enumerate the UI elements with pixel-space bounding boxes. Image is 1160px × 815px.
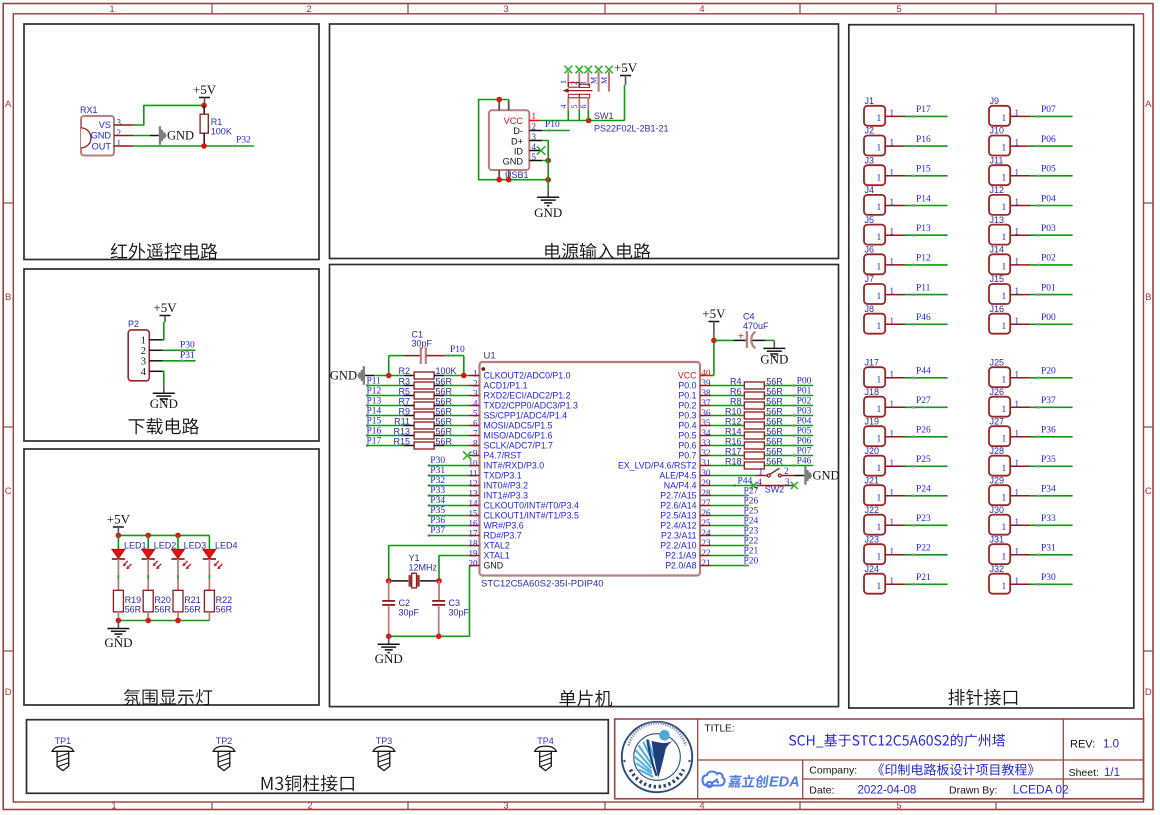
wire pin40 VCC: [711, 375, 714, 377]
pin header J24: [864, 574, 885, 594]
svg-text:R10: R10: [725, 407, 742, 417]
svg-text:1: 1: [1015, 316, 1020, 326]
svg-text:56R: 56R: [436, 427, 453, 437]
svg-text:P05: P05: [1041, 165, 1056, 175]
net label P07: [793, 454, 796, 457]
svg-text:GND: GND: [503, 156, 524, 166]
net label P16: [366, 434, 369, 437]
svg-text:P03: P03: [797, 406, 812, 416]
svg-text:A: A: [1145, 99, 1152, 110]
net label P03: [793, 414, 796, 417]
svg-text:1: 1: [1002, 464, 1007, 474]
pin header J8: [864, 314, 885, 334]
title 下载电路: [129, 418, 199, 435]
section box LED: [24, 449, 319, 705]
svg-text:P2.4/A12: P2.4/A12: [660, 521, 696, 531]
svg-text:1: 1: [877, 523, 882, 533]
wire D- / net P10: [542, 130, 570, 132]
svg-text:P2.5/A13: P2.5/A13: [660, 511, 696, 521]
net label P32: [233, 145, 236, 148]
svg-text:R12: R12: [725, 417, 742, 427]
svg-text:D: D: [1145, 687, 1152, 698]
svg-text:38: 38: [702, 388, 712, 398]
svg-text:P2.6/A14: P2.6/A14: [660, 501, 696, 511]
svg-text:5: 5: [570, 105, 579, 109]
svg-text:1: 1: [1015, 369, 1020, 379]
svg-text:1: 1: [559, 80, 568, 84]
resistor R19: [113, 590, 123, 612]
net label P30: [428, 464, 431, 467]
wire SW2 to GND: [781, 475, 794, 477]
svg-text:21: 21: [702, 558, 711, 568]
svg-text:LCEDA 02: LCEDA 02: [1013, 783, 1069, 797]
svg-text:C3: C3: [449, 598, 461, 608]
svg-text:GND: GND: [104, 635, 132, 650]
svg-text:P16: P16: [916, 135, 931, 145]
svg-text:1: 1: [890, 487, 895, 497]
svg-text:1: 1: [890, 286, 895, 296]
svg-text:P46: P46: [916, 313, 931, 323]
title 氛围显示灯: [124, 689, 212, 705]
node junctions top rail: [116, 533, 122, 539]
svg-text:P20: P20: [744, 556, 759, 566]
capacitor C4 470uF: [714, 339, 734, 341]
pin header J13: [989, 225, 1010, 245]
pin header J16: [989, 314, 1010, 334]
svg-text:C: C: [5, 486, 12, 497]
wire P17: [366, 445, 404, 447]
svg-text:1: 1: [1015, 197, 1020, 207]
svg-text:STC12C5A60S2-35I-PDIP40: STC12C5A60S2-35I-PDIP40: [481, 579, 604, 590]
svg-text:4: 4: [699, 800, 704, 811]
svg-text:VCC: VCC: [678, 371, 697, 381]
svg-text:1: 1: [1015, 167, 1020, 177]
pin header J21: [864, 485, 885, 505]
pin header J32: [989, 574, 1010, 594]
svg-text:9: 9: [473, 448, 478, 458]
svg-text:R13: R13: [393, 427, 410, 437]
connector P2: [128, 330, 149, 381]
svg-text:16: 16: [469, 518, 479, 528]
svg-text:P21: P21: [916, 573, 931, 583]
svg-text:OUT: OUT: [92, 141, 112, 151]
svg-text:P25: P25: [916, 455, 931, 465]
svg-text:J20: J20: [865, 446, 880, 456]
svg-text:56R: 56R: [436, 377, 453, 387]
node junction R1/OUT: [201, 143, 207, 149]
svg-text:1: 1: [1015, 227, 1020, 237]
svg-text:10: 10: [469, 458, 479, 468]
svg-text:1: 1: [877, 292, 882, 302]
svg-text:P07: P07: [797, 446, 812, 456]
svg-text:1: 1: [1015, 458, 1020, 468]
resistor R15: [404, 445, 414, 447]
svg-text:1: 1: [890, 517, 895, 527]
svg-text:6: 6: [473, 418, 478, 428]
no-connect X SW2 pin3: [791, 482, 798, 489]
svg-text:P31: P31: [180, 351, 195, 361]
svg-text:P0.4: P0.4: [678, 421, 696, 431]
section box download: [24, 269, 319, 441]
svg-text:56R: 56R: [436, 407, 453, 417]
svg-text:P02: P02: [797, 396, 812, 406]
svg-text:40: 40: [702, 368, 712, 378]
svg-text:P01: P01: [797, 386, 812, 396]
svg-text:P25: P25: [744, 506, 759, 516]
svg-text:J8: J8: [865, 304, 875, 314]
svg-text:1: 1: [890, 138, 895, 148]
svg-text:TP3: TP3: [376, 736, 393, 746]
svg-text:J11: J11: [990, 155, 1004, 165]
svg-text:P13: P13: [916, 224, 931, 234]
svg-text:5: 5: [896, 800, 901, 811]
svg-text:P17: P17: [916, 105, 931, 115]
svg-text:2: 2: [307, 800, 312, 811]
net label P05: [793, 434, 796, 437]
wire P34: [429, 505, 469, 507]
svg-text:GND: GND: [534, 205, 562, 220]
svg-text:P0.1: P0.1: [678, 391, 696, 401]
svg-text:27: 27: [702, 498, 712, 508]
svg-text:P35: P35: [430, 506, 445, 516]
svg-text:ID: ID: [514, 147, 524, 157]
svg-text:1: 1: [877, 144, 882, 154]
resistor R8: [744, 402, 764, 409]
svg-text:29: 29: [702, 478, 712, 488]
no-connect X marks SW1: [565, 66, 573, 74]
svg-text:TP2: TP2: [216, 736, 233, 746]
svg-text:P07: P07: [1041, 105, 1056, 115]
svg-text:P37: P37: [1041, 396, 1056, 406]
svg-text:3: 3: [473, 388, 478, 398]
svg-text:1: 1: [890, 458, 895, 468]
resistor R7: [404, 405, 414, 407]
svg-text:1: 1: [1002, 405, 1007, 415]
svg-text:1: 1: [117, 138, 122, 148]
wire P16: [366, 435, 404, 437]
wire pin24: [711, 535, 749, 537]
svg-text:1: 1: [890, 108, 895, 118]
svg-text:J12: J12: [990, 185, 1005, 195]
svg-text:470uF: 470uF: [743, 321, 769, 331]
USB connector USB1: [489, 110, 529, 170]
svg-text:30pF: 30pF: [399, 608, 420, 618]
svg-text:1: 1: [1002, 263, 1007, 273]
svg-text:P31: P31: [430, 466, 445, 476]
wire pin31: [711, 465, 745, 467]
svg-text:3: 3: [117, 117, 122, 127]
pin header J2: [864, 136, 885, 156]
svg-text:2: 2: [117, 128, 122, 138]
section box power input: [330, 24, 839, 259]
wire USB shield loop: [479, 100, 549, 180]
capacitor C2: [388, 581, 390, 601]
svg-text:1: 1: [1002, 375, 1007, 385]
svg-text:RXD2/ECI/ADC2/P1.2: RXD2/ECI/ADC2/P1.2: [484, 391, 571, 401]
svg-text:1: 1: [877, 582, 882, 592]
svg-text:P2.3/A11: P2.3/A11: [661, 531, 697, 541]
net label P12: [366, 394, 369, 397]
svg-text:33: 33: [702, 438, 712, 448]
net label P02: [793, 404, 796, 407]
svg-text:J30: J30: [990, 505, 1005, 515]
net label P22: [744, 544, 747, 547]
svg-text:56R: 56R: [766, 437, 783, 447]
net label P44: [733, 484, 736, 487]
svg-text:1: 1: [111, 800, 116, 811]
svg-text:ACD1/P1.1: ACD1/P1.1: [484, 381, 528, 391]
pin header J5: [864, 225, 885, 245]
svg-text:8: 8: [473, 438, 478, 448]
net label P46: [793, 464, 796, 467]
pin header J15: [989, 284, 1010, 304]
svg-text:GND: GND: [330, 369, 357, 383]
title M3铜柱接口: [262, 775, 354, 792]
svg-text:1: 1: [877, 114, 882, 124]
title block grid: [615, 719, 1144, 799]
svg-text:R17: R17: [725, 447, 742, 457]
node junction Y1 right: [436, 578, 442, 584]
svg-text:1: 1: [1002, 173, 1007, 183]
svg-text:M: M: [589, 77, 598, 84]
svg-text:P20: P20: [1041, 367, 1056, 377]
svg-text:1: 1: [1015, 108, 1020, 118]
svg-text:1: 1: [890, 399, 895, 409]
node junction C1/R2 left: [386, 373, 392, 379]
svg-text:R11: R11: [394, 417, 410, 427]
svg-text:1: 1: [890, 576, 895, 586]
svg-text:J27: J27: [990, 416, 1005, 426]
svg-text:TXD2/CPP0/ADC3/P1.3: TXD2/CPP0/ADC3/P1.3: [484, 401, 578, 411]
svg-text:J2: J2: [865, 126, 875, 136]
svg-text:36: 36: [702, 408, 712, 418]
svg-text:J21: J21: [865, 475, 880, 485]
svg-text:1: 1: [1015, 399, 1020, 409]
pin header J30: [989, 515, 1010, 535]
svg-text:XTAL2: XTAL2: [484, 541, 510, 551]
resistor R2: [404, 375, 414, 377]
svg-text:100K: 100K: [211, 127, 232, 137]
svg-text:19: 19: [469, 548, 479, 558]
svg-text:P30: P30: [430, 456, 445, 466]
svg-text:24: 24: [702, 528, 712, 538]
svg-text:P0.3: P0.3: [678, 411, 696, 421]
svg-text:R19: R19: [125, 595, 142, 605]
pin header J12: [989, 195, 1010, 215]
svg-text:11: 11: [469, 468, 478, 478]
svg-text:P37: P37: [430, 526, 445, 536]
svg-text:P14: P14: [916, 194, 931, 204]
net label P25: [744, 514, 747, 517]
net label P37: [428, 534, 431, 537]
net label P11: [366, 384, 369, 387]
net label P35: [428, 514, 431, 517]
svg-text:1: 1: [1015, 138, 1020, 148]
wire P2 pin1 to +5V: [163, 322, 164, 340]
pin header J10: [989, 136, 1010, 156]
pin header J26: [989, 397, 1010, 417]
wire P31: [429, 475, 469, 477]
svg-text:R15: R15: [393, 437, 410, 447]
svg-text:P04: P04: [1041, 194, 1056, 204]
svg-text:1: 1: [890, 256, 895, 266]
svg-text:LED4: LED4: [215, 541, 238, 551]
wire XTAL1: [439, 556, 469, 581]
svg-text:56R: 56R: [436, 387, 453, 397]
svg-text:P22: P22: [916, 544, 931, 554]
pin header J27: [989, 426, 1010, 446]
wire pin36: [711, 415, 745, 417]
svg-text:1: 1: [890, 197, 895, 207]
svg-text:1: 1: [1002, 552, 1007, 562]
svg-text:R5: R5: [398, 387, 410, 397]
svg-text:1: 1: [1002, 493, 1007, 503]
svg-text:3: 3: [141, 356, 146, 367]
LED LED1: [117, 535, 119, 549]
switch SW2: [767, 474, 770, 477]
svg-text:J22: J22: [865, 505, 880, 515]
svg-text:1: 1: [109, 4, 114, 15]
svg-text:1: 1: [877, 375, 882, 385]
svg-text:INT0#/P3.2: INT0#/P3.2: [484, 481, 529, 491]
wire RX1 VS to +5V: [134, 105, 204, 125]
svg-text:MOSI/ADC5/P1.5: MOSI/ADC5/P1.5: [484, 421, 553, 431]
pin header J4: [864, 195, 885, 215]
no-connect X SW2 pin4: [750, 482, 757, 489]
svg-text:2: 2: [306, 4, 311, 15]
svg-text:EDA: EDA: [769, 775, 800, 791]
wire P35: [429, 515, 469, 517]
svg-text:R14: R14: [725, 427, 742, 437]
svg-text:B: B: [5, 292, 11, 303]
svg-text:56R: 56R: [436, 397, 453, 407]
svg-text:RX1: RX1: [80, 105, 98, 115]
svg-text:D+: D+: [511, 136, 523, 146]
ground GND (LED): [117, 621, 119, 629]
svg-text:CLKOUT1/INT#/T1/P3.5: CLKOUT1/INT#/T1/P3.5: [484, 511, 579, 521]
svg-text:J25: J25: [990, 357, 1005, 367]
svg-text:35: 35: [702, 418, 712, 428]
svg-text:P03: P03: [1041, 224, 1056, 234]
svg-text:100K: 100K: [436, 366, 457, 376]
pin header J3: [864, 165, 885, 185]
svg-text:1: 1: [1002, 144, 1007, 154]
pin header J28: [989, 456, 1010, 476]
pin header J11: [989, 165, 1010, 185]
pin header J29: [989, 485, 1010, 505]
svg-text:J18: J18: [865, 387, 880, 397]
net label P17: [366, 444, 369, 447]
svg-text:25: 25: [702, 518, 712, 528]
svg-text:15: 15: [469, 508, 479, 518]
svg-text:37: 37: [702, 398, 712, 408]
svg-text:SS/CPP1/ADC4/P1.4: SS/CPP1/ADC4/P1.4: [484, 411, 568, 421]
svg-text:1: 1: [890, 167, 895, 177]
svg-text:RD#/P3.7: RD#/P3.7: [484, 531, 522, 541]
svg-text:GND: GND: [813, 469, 840, 483]
resistor R18: [744, 462, 764, 469]
svg-text:P36: P36: [1041, 426, 1056, 436]
svg-text:P05: P05: [797, 426, 812, 436]
svg-text:1: 1: [1002, 233, 1007, 243]
no-connect X on ID pin: [537, 146, 545, 154]
resistor R1: [203, 105, 205, 114]
wire pin38: [711, 395, 745, 397]
svg-text:CLKOUT2/ADC0/P1.0: CLKOUT2/ADC0/P1.0: [484, 371, 571, 381]
svg-text:+5V: +5V: [702, 306, 726, 321]
net label P04: [793, 424, 796, 427]
svg-text:C4: C4: [743, 312, 755, 322]
svg-text:1: 1: [877, 233, 882, 243]
svg-text:P00: P00: [797, 376, 812, 386]
svg-text:J23: J23: [865, 534, 880, 544]
svg-text:GND: GND: [375, 651, 403, 666]
svg-text:J32: J32: [990, 564, 1005, 574]
svg-text:1: 1: [1002, 114, 1007, 124]
svg-text:1: 1: [1015, 487, 1020, 497]
svg-text:12: 12: [469, 478, 478, 488]
svg-text:ALE/P4.5: ALE/P4.5: [659, 471, 696, 481]
wire pin26: [711, 515, 749, 517]
svg-text:3: 3: [503, 800, 508, 811]
pin header J7: [864, 284, 885, 304]
net label P13: [366, 404, 369, 407]
svg-text:Company:: Company:: [809, 765, 857, 777]
svg-text:J17: J17: [865, 357, 880, 367]
LCEDA logo: [703, 772, 725, 788]
wire pin33: [711, 445, 745, 447]
svg-text:C2: C2: [399, 598, 411, 608]
svg-text:34: 34: [702, 428, 712, 438]
node junction Y1 left: [386, 578, 392, 584]
resistor R5: [404, 395, 414, 397]
svg-text:1: 1: [890, 316, 895, 326]
node junction C2 bottom: [386, 634, 392, 640]
svg-text:P2.1/A9: P2.1/A9: [665, 551, 696, 561]
svg-text:A: A: [5, 99, 12, 110]
svg-text:P22: P22: [744, 536, 759, 546]
svg-text:P32: P32: [236, 136, 251, 146]
MCU U1 STC12C5A60S2-35I-PDIP40: [480, 362, 701, 576]
svg-text:12MHz: 12MHz: [409, 563, 438, 573]
svg-text:P46: P46: [797, 456, 812, 466]
svg-text:TXD/P3.1: TXD/P3.1: [484, 471, 522, 481]
svg-text:XTAL1: XTAL1: [484, 551, 510, 561]
svg-text:56R: 56R: [766, 417, 783, 427]
net label P32: [428, 484, 431, 487]
pin header J9: [989, 106, 1010, 126]
svg-text:P0.6: P0.6: [678, 441, 696, 451]
svg-text:P10: P10: [450, 345, 465, 355]
svg-text:13: 13: [469, 488, 479, 498]
switch SW1: [567, 72, 569, 86]
svg-text:J29: J29: [990, 475, 1005, 485]
svg-text:R9: R9: [398, 407, 410, 417]
node junctions USB: [496, 97, 502, 103]
svg-text:56R: 56R: [766, 387, 783, 397]
capacitor C1: [388, 356, 390, 376]
svg-text:J28: J28: [990, 446, 1005, 456]
svg-text:1: 1: [1002, 523, 1007, 533]
pin header J1: [864, 106, 885, 126]
section box MCU: [330, 265, 839, 707]
wire pin35: [711, 425, 745, 427]
wire P13: [366, 405, 404, 407]
wire VCC rail to SW1/+5V: [540, 120, 625, 122]
LED LED2: [147, 535, 149, 549]
svg-text:P02: P02: [1041, 254, 1056, 264]
svg-text:P4.7/RST: P4.7/RST: [484, 451, 523, 461]
